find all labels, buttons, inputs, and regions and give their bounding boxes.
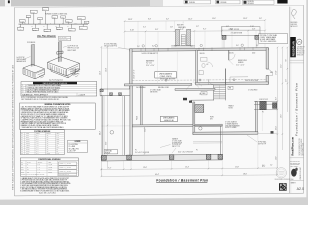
patio edge line [258, 132, 277, 134]
svg-text:9'-0" CLG: 9'-0" CLG [146, 63, 152, 65]
svg-text:5'-6": 5'-6" [286, 79, 288, 82]
extra top dim texts [143, 18, 262, 29]
svg-text:GRILL: GRILL [53, 17, 57, 19]
svg-text:P1: P1 [135, 150, 137, 152]
left dim rotated texts [100, 71, 102, 75]
rotated dim text along left wall [134, 69, 136, 79]
svg-text:PH 555.0100: PH 555.0100 [297, 51, 305, 53]
svg-text:11'-8": 11'-8" [235, 166, 239, 168]
svg-text:2668: 2668 [202, 93, 206, 95]
revision box 1 [184, 0, 211, 4]
svg-text:COOK: COOK [27, 16, 30, 18]
mech wall horiz y125.5 [193, 124, 222, 126]
svg-text:6'-4": 6'-4" [262, 166, 266, 168]
table1 grid [21, 84, 97, 86]
svg-text:WH 40: WH 40 [43, 9, 47, 11]
svg-text:STEP FOOTING: STEP FOOTING [71, 69, 81, 71]
svg-text:DEPTH: DEPTH [47, 133, 51, 135]
svg-text:12'-10" x 9'-2": 12'-10" x 9'-2" [134, 69, 136, 79]
garage apron double line [193, 141, 222, 143]
porch label box [104, 150, 117, 154]
bottom dimension line 1 [101, 168, 277, 170]
svg-text:4-#5: 4-#5 [36, 143, 39, 145]
svg-text:12'-0": 12'-0" [276, 156, 278, 160]
svg-text:24x10: 24x10 [26, 139, 30, 141]
svg-text:DESIGNED: DESIGNED [290, 22, 297, 24]
svg-text:BEDROOM 5: BEDROOM 5 [238, 60, 247, 62]
svg-text:12'-8": 12'-8" [106, 68, 108, 72]
base left detail (isometric footing) [23, 64, 45, 79]
front stoop (top) [221, 27, 260, 48]
svg-text:16'-6": 16'-6" [281, 114, 283, 118]
svg-text:DK: DK [57, 151, 59, 153]
svg-text:ResidPlans.com: ResidPlans.com [292, 137, 295, 155]
garage piers [102, 155, 107, 160]
svg-text:DESIGN: DESIGN [248, 1, 255, 3]
hatch on left footing faces [24, 69, 44, 78]
svg-text:3'-0": 3'-0" [259, 18, 262, 20]
svg-text:35 CFH: 35 CFH [33, 29, 37, 31]
svg-text:W10: W10 [21, 169, 24, 171]
svg-text:16x8 KEY FTG: 16x8 KEY FTG [71, 73, 80, 75]
leader line to corner [118, 47, 130, 49]
svg-text:3068: 3068 [270, 72, 273, 74]
title strip: top tiny text rows [290, 22, 297, 28]
stoop extension vertical [261, 110, 263, 131]
svg-text:EGRESS: EGRESS [238, 62, 244, 64]
svg-text:20x8: 20x8 [26, 137, 29, 139]
gas boxes above line [20, 20, 26, 23]
column circle [199, 127, 202, 130]
white notch in gray band [5, 0, 11, 6]
svg-text:28'-4" x 13'-0": 28'-4" x 13'-0" [146, 65, 155, 67]
top dimension line 2 [125, 31, 266, 32]
top dim line 2 texts [130, 28, 256, 31]
svg-text:11'-2": 11'-2" [281, 64, 283, 68]
svg-text:W12: W12 [21, 171, 24, 173]
furnace pier [195, 105, 204, 113]
svg-text:NEW RESIDENCE FOR: NEW RESIDENCE FOR [299, 137, 301, 155]
top dim line 2 ticks [124, 30, 266, 33]
interior wall horiz y125.6 (garage front) [132, 124, 222, 127]
svg-text:1-#4: 1-#4 [36, 149, 39, 151]
svg-text:GENERAL FOUNDATION NOTES: GENERAL FOUNDATION NOTES [44, 103, 71, 106]
svg-text:HB: HB [229, 88, 231, 90]
mech wall vert x193 [192, 103, 194, 125]
patio corner pier [271, 131, 274, 134]
svg-text:FIGURED DIMS: FIGURED DIMS [290, 164, 299, 166]
family room leader + note [247, 135, 257, 142]
hall leader diagonals [186, 81, 202, 90]
svg-text:2'-8": 2'-8" [170, 26, 173, 28]
svg-text:42x12: 42x12 [26, 145, 30, 147]
svg-text:16'-0" x 8'-0" OH DOOR: 16'-0" x 8'-0" OH DOOR [178, 152, 193, 154]
porch strip left wall [101, 96, 103, 157]
garage interior dim line [144, 128, 146, 155]
svg-text:SHEET: SHEET [291, 183, 296, 185]
hall dark blobs [183, 98, 187, 101]
svg-text:BRG: BRG [57, 139, 60, 141]
hall interior wall segment [175, 88, 215, 90]
family room right wall [255, 102, 257, 134]
top dim line 1 ticks [124, 19, 266, 22]
left margin vertical disclaimer text [12, 64, 15, 190]
garage notes text block [172, 138, 182, 149]
svg-text:HORIZ #4 @ 18" OC: HORIZ #4 @ 18" OC [59, 167, 71, 169]
unexcavated label box 1 [155, 72, 177, 78]
svg-text:3040 SL: 3040 SL [229, 53, 234, 55]
window dim texts above top wall [137, 45, 259, 48]
sheet border right [303, 5, 305, 193]
svg-text:W8x18 STEEL BM OVER: W8x18 STEEL BM OVER [160, 78, 175, 80]
svg-text:30x10: 30x10 [26, 141, 30, 143]
title strip: rotated sheet title [294, 83, 298, 136]
title strip: right tiny column [300, 167, 302, 179]
svg-text:REG: REG [85, 22, 88, 24]
svg-text:P# = PIER: P# = PIER [69, 146, 75, 148]
plan corner leader texts top-left [104, 43, 117, 48]
leader lines garage [160, 145, 176, 154]
interior wall vert x196.5 [196, 50, 198, 83]
right exterior wall (upper, with door gap) [266, 48, 268, 69]
svg-text:TO DOOR 1/8": TO DOOR 1/8" [172, 144, 181, 146]
svg-text:PORCH: PORCH [105, 152, 110, 154]
svg-text:TYP: TYP [57, 137, 60, 139]
svg-text:3'-1": 3'-1" [143, 27, 146, 29]
svg-text:UNEXCAVATED: UNEXCAVATED [159, 72, 173, 75]
main left wall lower [130, 86, 132, 157]
black box top right [277, 0, 287, 4]
door swing arc right wall [266, 69, 272, 75]
svg-text:10'-4": 10'-4" [276, 126, 278, 130]
svg-text:DRYER: DRYER [31, 11, 35, 13]
svg-text:13'-4": 13'-4" [100, 71, 102, 75]
svg-text:ONLY VERIFY: ONLY VERIFY [290, 166, 298, 168]
svg-text:REM: REM [57, 133, 60, 135]
right detail leader texts [49, 46, 80, 82]
svg-text:TYP: TYP [57, 153, 60, 155]
svg-text:CHECKED: CHECKED [290, 24, 297, 26]
title strip: logo circle [297, 39, 302, 44]
table1 header bar [33, 82, 77, 85]
left dim vertical 2 [106, 47, 108, 169]
scanner gray band bottom [0, 197, 308, 205]
svg-text:20'-2": 20'-2" [100, 131, 102, 135]
svg-text:CONC. STOOP: CONC. STOOP [229, 29, 239, 31]
garage bottom wall band [102, 154, 223, 161]
svg-text:65 CFH: 65 CFH [18, 28, 22, 30]
unexcavated label box 2 [160, 116, 177, 121]
svg-text:JOB NO 21-044 SHT: JOB NO 21-044 SHT [300, 167, 302, 179]
svg-text:TYP. U.N.O. SEE NOTES: TYP. U.N.O. SEE NOTES [260, 41, 276, 43]
title strip: stamp dense text [290, 160, 300, 168]
svg-text:A2.0: A2.0 [297, 187, 304, 191]
bath fixtures cluster [201, 58, 208, 62]
beam dashed line across basement [132, 80, 266, 81]
top dimension line 1 [125, 20, 266, 21]
svg-text:16x8: 16x8 [26, 135, 29, 137]
svg-text:F# = FOOTING: F# = FOOTING [69, 144, 78, 146]
svg-text:25 CFH: 25 CFH [57, 28, 61, 30]
interior extension verticals in basement [156, 51, 158, 84]
window ticks on top wall [141, 47, 253, 51]
svg-text:COL: COL [57, 143, 60, 145]
svg-text:40'-4": 40'-4" [155, 174, 159, 176]
texts along garage bottom wall [135, 149, 198, 153]
svg-text:POUR: POUR [137, 116, 139, 120]
garage right wall [220, 126, 222, 155]
texts below top wall [142, 52, 256, 55]
svg-text:1-#4: 1-#4 [36, 147, 39, 149]
svg-text:36x12: 36x12 [26, 143, 30, 145]
hatch right footing [49, 64, 79, 77]
svg-text:REINF: REINF [36, 133, 40, 135]
engineer seal circle [276, 168, 286, 178]
svg-text:DK: DK [57, 149, 59, 151]
bedroom door arc [229, 54, 235, 60]
svg-text:6'-10": 6'-10" [130, 29, 134, 31]
title strip: rotated bold project name [292, 137, 295, 155]
lally columns on beam [165, 79, 167, 81]
svg-text:2-#4: 2-#4 [36, 153, 39, 155]
svg-text:THESE PLANS ARE COPYRIGHT PROT: THESE PLANS ARE COPYRIGHT PROTECTED. ANY… [12, 64, 15, 190]
extra extension verticals [138, 21, 256, 49]
interior wall horiz y83.5 (bedroom bottom) [196, 82, 269, 85]
svg-text:2030: 2030 [252, 52, 255, 54]
svg-text:COL: COL [57, 141, 60, 143]
title strip: black logo bar [290, 37, 296, 57]
footing legend box [68, 140, 87, 153]
svg-text:4-#5: 4-#5 [36, 145, 39, 147]
rear stoop [254, 101, 277, 110]
porch strip right wall [122, 96, 124, 157]
post left detail [31, 44, 34, 66]
gas box texts [18, 9, 83, 32]
svg-text:P2: P2 [262, 112, 264, 114]
svg-text:FURN: FURN [66, 21, 69, 23]
svg-text:18'-6": 18'-6" [243, 173, 247, 175]
svg-text:Foundation / Basement Plan: Foundation / Basement Plan [294, 83, 298, 136]
binder mark top-left [8, 0, 10, 3]
svg-text:FP: FP [57, 145, 59, 147]
svg-text:14'-2": 14'-2" [188, 18, 193, 20]
rear stoop texts [259, 99, 268, 114]
svg-text:Foundation / Basement Plan: Foundation / Basement Plan [156, 178, 208, 182]
family room left wall [193, 102, 195, 134]
bay piers [100, 89, 103, 91]
svg-text:= 1,652 SF: = 1,652 SF [79, 94, 86, 96]
svg-text:7'-0": 7'-0" [286, 59, 288, 62]
porch column circle [110, 131, 114, 135]
sheet border top [14, 5, 303, 7]
stepped footing [48, 57, 80, 76]
sheet border bottom [14, 193, 303, 196]
gas boxes below line [18, 27, 24, 30]
interior wall vert x141 [141, 86, 143, 127]
svg-text:HORIZ #4 @ 18" OC: HORIZ #4 @ 18" OC [59, 163, 71, 165]
svg-text:ISSUE: ISSUE [221, 2, 228, 4]
svg-text:4'-6": 4'-6" [226, 26, 229, 28]
title strip: ink stamp blob [291, 169, 297, 177]
svg-text:PCH: PCH [57, 147, 60, 149]
bottom-left dense notes [20, 177, 71, 193]
fireplace [171, 22, 195, 48]
top exterior wall [130, 48, 269, 52]
svg-text:5'-2": 5'-2" [196, 26, 199, 28]
svg-text:THICK: THICK [27, 162, 31, 164]
svg-text:U.N.O. TYP: U.N.O. TYP [69, 151, 76, 153]
svg-text:4x4 POST W/: 4x4 POST W/ [17, 57, 26, 59]
left dim 1 ticks [101, 46, 103, 170]
window tag circles above top wall [142, 44, 243, 47]
left dimension vertical 1 [100, 47, 102, 176]
svg-text:ON 16x8 CONT FTG: ON 16x8 CONT FTG [104, 46, 117, 48]
svg-text:2-#4: 2-#4 [36, 135, 39, 137]
svg-text:7'-2": 7'-2" [108, 167, 112, 169]
svg-text:#5@24: #5@24 [48, 169, 52, 171]
svg-text:W1: W1 [21, 153, 23, 155]
bay window lines [100, 88, 130, 90]
title strip: rotated project address lines [299, 137, 305, 155]
title strip divider [289, 7, 291, 194]
sheet border left [13, 8, 15, 196]
svg-text:16x8: 16x8 [26, 153, 29, 155]
svg-text:CONT: CONT [47, 153, 51, 155]
gas main line [19, 23, 89, 25]
svg-text:MK: MK [21, 133, 23, 135]
svg-text:29'-8": 29'-8" [128, 19, 133, 21]
bedroom closet lines [229, 77, 231, 82]
svg-text:#4@32: #4@32 [48, 164, 52, 166]
svg-text:LINE OF DECK OVER: LINE OF DECK OVER [245, 80, 258, 82]
svg-text:12'-4": 12'-4" [185, 167, 189, 169]
svg-text:40 CFH: 40 CFH [45, 30, 49, 32]
title strip: logo side text rows [297, 46, 305, 57]
svg-text:8'-4": 8'-4" [148, 19, 151, 21]
svg-text:SIZE: SIZE [26, 133, 29, 135]
svg-text:MIN 42" DEEP: MIN 42" DEEP [68, 50, 77, 52]
svg-text:HEIGHT: HEIGHT [38, 162, 43, 164]
interior wall horiz (front of unexcavated) [124, 83, 192, 86]
svg-text:9'-0": 9'-0" [106, 141, 108, 145]
svg-text:REVIEW: REVIEW [248, 3, 255, 5]
texts along hall wall [136, 86, 169, 89]
title strip: page-curl mark [291, 9, 296, 19]
svg-text:17'-10": 17'-10" [276, 70, 278, 75]
svg-text:SUITE 200: SUITE 200 [297, 49, 304, 51]
svg-text:SEE NOTES: SEE NOTES [150, 92, 158, 94]
svg-text:FX 555.0101: FX 555.0101 [297, 53, 305, 55]
gas risers [21, 22, 23, 24]
svg-text:METER: METER [78, 18, 82, 20]
svg-text:#5@16: #5@16 [48, 171, 52, 173]
svg-text:13'-6": 13'-6" [143, 167, 147, 169]
svg-text:ISSUE: ISSUE [189, 2, 196, 4]
svg-text:2-#4: 2-#4 [36, 151, 39, 153]
family room bottom wall [193, 132, 258, 135]
svg-text:125 M: 125 M [69, 30, 72, 32]
family room top jog [191, 99, 214, 101]
left exterior wall upper [130, 49, 133, 89]
title strip inner border line [290, 7, 292, 194]
hall door arc at stair bottom [208, 79, 213, 84]
QR code [279, 183, 287, 191]
svg-text:W1 FTG TYP: W1 FTG TYP [258, 144, 266, 146]
svg-text:3-#5: 3-#5 [36, 141, 39, 143]
svg-text:6'-2": 6'-2" [166, 19, 169, 21]
svg-text:15'-6": 15'-6" [243, 18, 248, 20]
svg-text:6x6 PT POST ON: 6x6 PT POST ON [68, 46, 78, 48]
svg-text:8'-2": 8'-2" [276, 97, 278, 100]
right dimension verticals [276, 48, 278, 169]
svg-text:WEB.COM: WEB.COM [297, 55, 303, 57]
gas legend boxes under title [59, 36, 71, 40]
svg-text:#4@32: #4@32 [48, 167, 52, 169]
svg-text:W/ WWM PITCH: W/ WWM PITCH [172, 142, 182, 144]
bottom extension verticals [124, 110, 277, 176]
svg-text:9'-0" x 8'-0" OH DOOR: 9'-0" x 8'-0" OH DOOR [135, 152, 149, 154]
wall schedule right stacked boxes [59, 162, 77, 165]
revision box 2 [216, 0, 241, 4]
svg-text:UNIT: UNIT [61, 17, 64, 19]
svg-text:TYP: TYP [57, 135, 60, 137]
stairs [214, 85, 226, 101]
left detail leader texts [17, 41, 36, 63]
hall tag boxes [201, 92, 207, 95]
left extension horizontals [100, 48, 133, 156]
svg-text:3-#4: 3-#4 [36, 139, 39, 141]
dimension extension verticals (top) [125, 20, 265, 48]
gas extra boxes/marks [26, 16, 89, 25]
hall stub wall right of stairs [225, 69, 227, 85]
general notes box (top right) [259, 34, 288, 44]
svg-text:9'-6": 9'-6" [155, 29, 159, 31]
svg-text:ROOM: ROOM [229, 108, 233, 110]
svg-text:PER FT TYP: PER FT TYP [172, 146, 180, 148]
svg-text:2x6 SILL PT TYP: 2x6 SILL PT TYP [59, 174, 69, 176]
svg-text:CONC STOOP: CONC STOOP [259, 99, 268, 101]
bedroom entry stub wall [228, 50, 230, 60]
svg-text:VERT: VERT [48, 162, 52, 164]
room texts [146, 60, 247, 130]
svg-text:HORIZ #5 @ 12" OC: HORIZ #5 @ 12" OC [59, 171, 71, 173]
scanner gray right edge [306, 0, 308, 205]
svg-text:21'-8": 21'-8" [144, 128, 146, 132]
svg-text:MK: MK [21, 162, 23, 164]
rotated dim text in garage [144, 128, 146, 132]
svg-text:P1: P1 [196, 149, 198, 151]
svg-text:10'-6": 10'-6" [212, 18, 216, 20]
svg-text:RESIDPLAN: RESIDPLAN [293, 41, 296, 56]
table1 row texts [22, 84, 85, 96]
title strip divider lines [290, 59, 304, 61]
svg-text:W8: W8 [21, 164, 23, 166]
bottom dimension line 2 [101, 175, 277, 177]
scanner gray band top-left [0, 0, 163, 6]
svg-text:FURN: FURN [210, 117, 214, 119]
revision box 3 [243, 0, 275, 5]
svg-text:11'-2" x 12'-6": 11'-2" x 12'-6" [236, 64, 245, 66]
svg-text:2-#4: 2-#4 [36, 137, 39, 139]
svg-text:3040 SL: 3040 SL [200, 53, 205, 55]
svg-text:9'-2": 9'-2" [203, 29, 207, 31]
